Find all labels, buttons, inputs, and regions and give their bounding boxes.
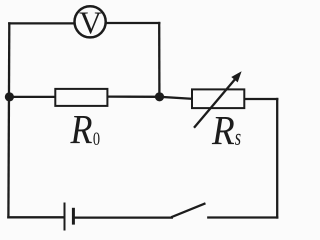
- wire: Rs to right side: [245, 98, 277, 100]
- rheostat Rs arrowhead: [231, 71, 241, 82]
- svg-text:0: 0: [93, 129, 100, 150]
- wire: middle, R0 to right junction: [108, 95, 159, 98]
- wire: middle, right junction to Rs: [159, 97, 192, 99]
- svg-text:R: R: [70, 107, 93, 152]
- rheostat Rs arrow (diagonal line): [194, 78, 237, 128]
- wire: right vertical side: [276, 99, 278, 218]
- wire: bottom middle (battery to switch pivot): [74, 216, 172, 218]
- wire: top-left horizontal (left corner to voltmeter): [9, 22, 74, 24]
- rheostat Rs (body): [192, 89, 244, 108]
- wire: voltmeter branch vertical down to junction: [158, 23, 160, 96]
- node: right junction dot: [155, 92, 164, 101]
- wire: middle, left junction to R0: [9, 96, 55, 98]
- resistor R0 (body): [55, 89, 107, 106]
- svg-text:V: V: [79, 5, 102, 40]
- wire: bottom-right horizontal (switch fixed contact): [208, 216, 277, 218]
- wire: top-right horizontal (voltmeter to right branch corner): [106, 22, 159, 24]
- wire: left vertical side: [7, 23, 10, 217]
- svg-text:R: R: [211, 108, 235, 153]
- voltmeter V (circle): [75, 6, 106, 37]
- svg-text:s: s: [235, 125, 241, 151]
- battery: short thick plate: [72, 208, 75, 225]
- switch S (blade): [172, 204, 204, 217]
- wire: bottom-left horizontal (corner to battery long plate): [8, 216, 63, 218]
- battery: long plate: [64, 203, 66, 231]
- node: left junction dot: [5, 92, 14, 101]
